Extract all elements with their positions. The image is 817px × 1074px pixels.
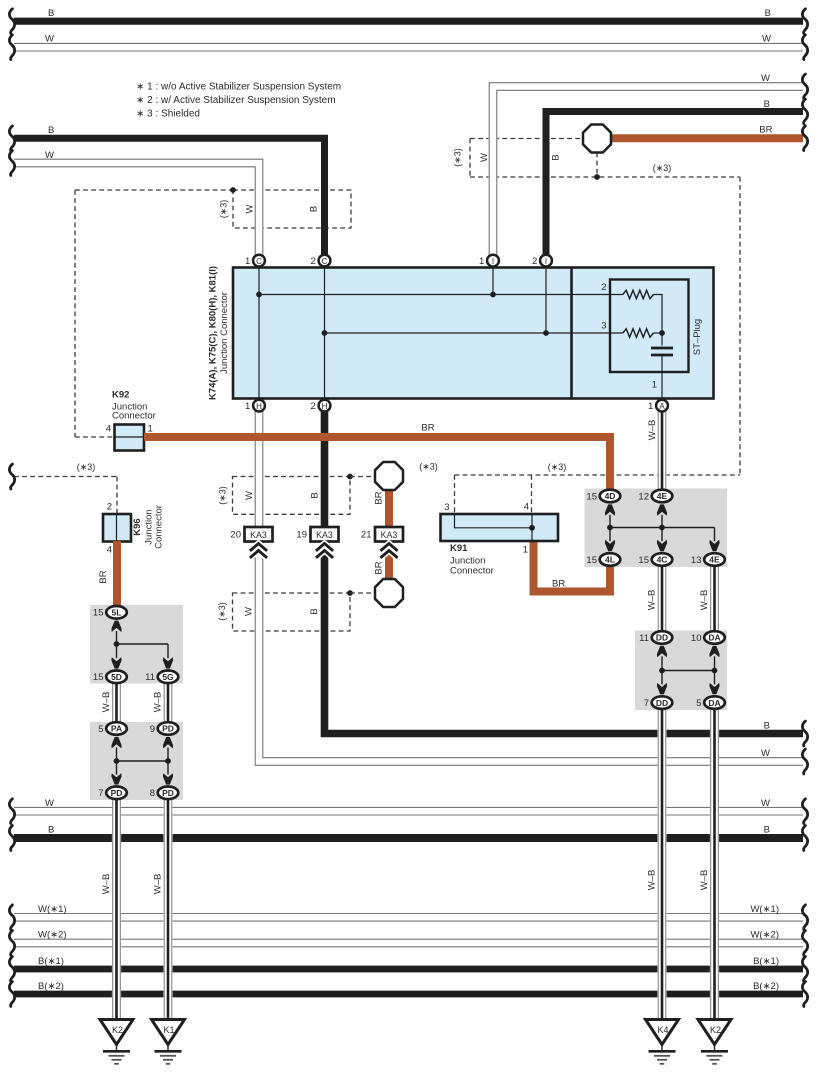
svg-text:12: 12: [638, 491, 649, 502]
svg-text:W(∗1): W(∗1): [38, 904, 67, 915]
svg-text:K92: K92: [112, 390, 129, 401]
svg-text:∗ 2 : w/ Active Stabilizer Sus: ∗ 2 : w/ Active Stabilizer Suspension Sy…: [136, 95, 336, 106]
connector 4D/4E/4L/4C with arrows: [605, 504, 615, 515]
svg-text:7: 7: [644, 698, 649, 709]
svg-text:15: 15: [586, 491, 597, 502]
shield octagon top right: [583, 125, 611, 153]
node K91 junction: [529, 525, 535, 531]
svg-text:5: 5: [696, 698, 701, 709]
shield dashed right vertical: [739, 177, 741, 475]
wire BR from K96 to 5L: [113, 541, 121, 606]
svg-text:B: B: [48, 8, 54, 19]
svg-text:1: 1: [245, 256, 250, 267]
svg-text:W–B: W–B: [153, 874, 164, 895]
wire BR KA3 21 to lower octagon: [385, 541, 393, 580]
svg-text:DA: DA: [708, 698, 720, 708]
svg-text:3: 3: [601, 321, 606, 332]
wire resistor 3 output: [653, 332, 662, 334]
shield dashed line left vertical: [74, 190, 76, 437]
connector KA3 pin 20: [245, 527, 273, 542]
svg-text:4E: 4E: [709, 555, 720, 565]
svg-text:W: W: [45, 798, 54, 809]
wire W to junction connector pin 1C: [14, 163, 259, 257]
pin 2C: [319, 255, 331, 267]
svg-text:W: W: [761, 798, 770, 809]
K91 internal wire pin 4 to pin 1: [531, 514, 533, 541]
block internal wire pin 2C to 2H: [324, 268, 326, 399]
svg-text:1: 1: [245, 401, 250, 412]
wire end marks right: [802, 9, 807, 34]
svg-text:K4: K4: [657, 1025, 668, 1035]
svg-text:PA: PA: [111, 724, 122, 734]
svg-text:15: 15: [586, 555, 597, 566]
wire B from pin 2H down and right: [325, 409, 804, 734]
wire W-B 4E to DA: [710, 565, 719, 632]
svg-text:4: 4: [107, 545, 112, 556]
svg-text:W: W: [45, 150, 54, 161]
svg-text:(∗3): (∗3): [419, 462, 438, 472]
svg-text:7: 7: [98, 788, 103, 799]
svg-text:1: 1: [652, 380, 657, 391]
svg-text:11: 11: [145, 672, 155, 683]
wire W from pin 1H down and right: [259, 409, 803, 762]
shield dashed drop to K91 pin 3: [454, 475, 456, 514]
connector 5L with arrows: [111, 621, 121, 632]
svg-text:15: 15: [93, 608, 104, 619]
svg-text:Connector: Connector: [112, 411, 156, 422]
node on wire 1: [256, 292, 262, 298]
svg-text:2: 2: [532, 256, 537, 267]
svg-text:B(∗2): B(∗2): [753, 981, 779, 992]
svg-text:2: 2: [311, 401, 316, 412]
svg-text:KA3: KA3: [316, 530, 333, 540]
svg-text:W–B: W–B: [647, 590, 658, 611]
ground K2 left: [100, 1020, 133, 1045]
svg-text:K74(A), K75(C), K80(H), K81(I): K74(A), K75(C), K80(H), K81(I): [208, 266, 219, 400]
svg-text:10: 10: [691, 633, 702, 644]
wire B bus middle: [14, 834, 803, 842]
svg-text:W(∗2): W(∗2): [750, 930, 779, 941]
wire BR shielded to octagon: [611, 134, 803, 142]
svg-text:8: 8: [150, 788, 155, 799]
svg-text:K1: K1: [163, 1025, 174, 1035]
junction connector K74(A), K75(C), K80(H), K81(I): [233, 268, 714, 399]
shield dashed line to K92: [75, 436, 114, 438]
node shield junction upper KA3 box: [347, 474, 353, 480]
svg-text:W: W: [244, 607, 255, 616]
svg-text:(∗3): (∗3): [453, 148, 463, 167]
ground K2 right: [698, 1020, 731, 1045]
wire W-B 5D to PA: [112, 682, 121, 723]
svg-text:(∗3): (∗3): [548, 462, 567, 472]
svg-text:W–B: W–B: [153, 692, 164, 713]
block internal wire pin 1C to 1H: [258, 268, 260, 399]
pin 1I: [487, 255, 499, 267]
svg-text:PD: PD: [162, 724, 174, 734]
svg-text:9: 9: [150, 724, 155, 735]
svg-text:W: W: [244, 491, 255, 500]
svg-text:(∗3): (∗3): [77, 462, 96, 472]
shield dashed line to K96: [14, 476, 117, 478]
block internal wire pin 1I: [492, 268, 494, 295]
svg-text:2: 2: [601, 282, 606, 293]
svg-text:B: B: [765, 8, 771, 19]
svg-text:B(∗2): B(∗2): [38, 981, 64, 992]
svg-text:Connector: Connector: [154, 505, 165, 549]
svg-text:KA3: KA3: [250, 530, 267, 540]
svg-text:4L: 4L: [605, 555, 615, 565]
svg-text:2: 2: [311, 256, 316, 267]
block internal wire to resistor 2: [259, 294, 623, 296]
svg-text:1: 1: [148, 424, 153, 435]
wire B(*1) bus: [14, 966, 803, 973]
svg-text:BR: BR: [421, 423, 434, 434]
shield octagon above KA3 21: [375, 462, 403, 490]
svg-text:I: I: [492, 257, 494, 266]
wire W-B DA to ground K2: [710, 708, 719, 1020]
shaded connector area PA/PD: [90, 722, 183, 800]
svg-text:5D: 5D: [111, 672, 122, 682]
svg-text:PD: PD: [111, 788, 123, 798]
svg-text:BR: BR: [98, 570, 109, 583]
node shield junction left: [230, 187, 236, 193]
shield dashed drop to K91 pin 4: [531, 475, 533, 514]
svg-text:H: H: [322, 402, 328, 411]
shield stub from octagon: [596, 153, 598, 178]
wire W-B PD to ground K1: [163, 798, 172, 1020]
svg-text:(∗3): (∗3): [217, 602, 227, 621]
block internal wire to resistor 3: [325, 332, 623, 334]
svg-text:4D: 4D: [605, 491, 616, 501]
wire W-B PD to ground K2: [112, 798, 121, 1020]
svg-text:BR: BR: [374, 561, 385, 574]
ST-Plug box: [610, 280, 689, 373]
node resistor junction: [659, 330, 665, 336]
ground K1: [152, 1020, 185, 1045]
resistor 3 of ST-Plug: [623, 329, 654, 337]
wire B bus top: [14, 18, 803, 25]
svg-text:C: C: [256, 257, 262, 266]
svg-text:B: B: [310, 492, 321, 498]
svg-text:W–B: W–B: [647, 870, 658, 891]
svg-text:C: C: [322, 257, 328, 266]
resistor 2 of ST-Plug: [623, 290, 654, 298]
node shield junction right: [594, 174, 600, 180]
wire B to junction connector pin 2I: [546, 112, 803, 263]
svg-text:4: 4: [106, 424, 111, 435]
svg-text:2: 2: [107, 502, 112, 513]
svg-text:BR: BR: [759, 125, 772, 136]
pin 2I: [540, 255, 552, 267]
block internal wire pin 2I: [545, 268, 547, 334]
svg-text:W: W: [45, 34, 54, 45]
svg-text:B: B: [764, 720, 770, 731]
wire W-B 5G to PD: [163, 682, 172, 723]
shaded connector area 4D/4E/4L/4C: [585, 489, 728, 568]
svg-text:B: B: [48, 825, 54, 836]
svg-text:W–B: W–B: [101, 692, 112, 713]
svg-text:1: 1: [648, 401, 653, 412]
wire BR from K91 pin 1 to 4L: [534, 540, 611, 592]
wire end marks left: [9, 9, 14, 34]
shield dashed box (*3) upper around KA3 wires: [233, 477, 351, 515]
pin 1C: [253, 255, 265, 267]
svg-text:4C: 4C: [657, 555, 668, 565]
svg-text:KA3: KA3: [381, 530, 398, 540]
pin 1A: [656, 400, 668, 412]
shield dashed line right top: [470, 138, 583, 140]
wire B to junction connector pin 2C: [14, 138, 325, 262]
shield octagon below KA3 21: [375, 579, 403, 607]
connector DD/DA with arrows: [657, 646, 667, 657]
svg-text:B: B: [309, 608, 320, 614]
wire W-B from pin 1A to 4E: [657, 409, 666, 491]
svg-text:20: 20: [230, 530, 241, 541]
svg-text:DA: DA: [708, 633, 720, 643]
wire W to junction connector pin 1I: [493, 87, 803, 258]
connector KA3 pin 21: [375, 527, 403, 542]
svg-text:Junction Connector: Junction Connector: [219, 292, 230, 374]
wire W(*1) bus: [14, 913, 803, 922]
svg-text:W–B: W–B: [647, 420, 658, 441]
shield dashed to octagon below KA3: [350, 592, 375, 594]
shield dashed to octagon above KA3: [350, 476, 375, 478]
svg-text:W–B: W–B: [699, 590, 710, 611]
svg-text:4E: 4E: [657, 491, 668, 501]
svg-text:B(∗1): B(∗1): [753, 956, 779, 967]
connector KA3 pin 19: [311, 527, 339, 542]
svg-text:PD: PD: [162, 788, 174, 798]
wire resistor 2 output: [653, 295, 662, 334]
svg-text:H: H: [256, 402, 262, 411]
svg-text:B: B: [309, 206, 320, 212]
svg-text:∗ 3 : Shielded: ∗ 3 : Shielded: [136, 109, 200, 120]
svg-text:(∗3): (∗3): [219, 200, 229, 219]
svg-text:W: W: [761, 73, 770, 84]
shield dashed line left top: [75, 189, 233, 191]
shield dashed drop to K96 pin 2: [116, 477, 118, 515]
svg-text:I: I: [545, 257, 547, 266]
svg-text:5L: 5L: [112, 608, 122, 618]
svg-text:1: 1: [523, 545, 528, 556]
svg-text:B: B: [48, 125, 54, 136]
shield dashed horizontal above K91: [455, 474, 741, 476]
svg-text:B: B: [764, 99, 770, 110]
shield dashed left edge right box: [469, 139, 471, 178]
node shield junction lower KA3 box: [347, 590, 353, 596]
wire B(*2) bus: [14, 991, 803, 998]
shaded connector area DD/DA: [635, 631, 727, 711]
svg-text:W(∗1): W(∗1): [750, 904, 779, 915]
svg-text:K91: K91: [450, 543, 468, 554]
svg-text:1: 1: [479, 256, 484, 267]
capacitor of ST-Plug: [661, 333, 663, 346]
svg-text:W: W: [761, 748, 770, 759]
svg-text:DD: DD: [656, 633, 668, 643]
svg-text:B: B: [551, 154, 562, 160]
svg-text:∗ 1 : w/o Active Stabilizer Su: ∗ 1 : w/o Active Stabilizer Suspension S…: [136, 82, 341, 93]
svg-text:K96: K96: [132, 518, 143, 535]
svg-text:K2: K2: [710, 1025, 721, 1035]
svg-text:5: 5: [98, 724, 103, 735]
connector PA/PD with arrows: [111, 737, 121, 748]
svg-text:ST–Plug: ST–Plug: [692, 319, 703, 355]
svg-text:B: B: [764, 825, 770, 836]
wire W-B 4C to DD: [657, 565, 666, 632]
svg-text:(∗3): (∗3): [218, 486, 228, 505]
node on wire 2: [322, 330, 328, 336]
ground K4: [646, 1020, 679, 1045]
wire BR from K92 to 4D: [144, 437, 610, 491]
junction connector K96: [103, 514, 131, 542]
svg-text:15: 15: [638, 555, 649, 566]
svg-text:W: W: [762, 34, 771, 45]
svg-text:W(∗2): W(∗2): [38, 930, 67, 941]
svg-text:11: 11: [639, 633, 649, 644]
svg-text:K2: K2: [112, 1025, 123, 1035]
wire W bus middle: [14, 807, 803, 816]
svg-text:A: A: [659, 402, 665, 411]
wire BR octagon to KA3 21: [385, 490, 393, 528]
svg-text:B(∗1): B(∗1): [38, 956, 64, 967]
svg-text:4: 4: [524, 502, 529, 513]
shaded connector area 5L/5D/5G: [90, 605, 183, 684]
svg-text:19: 19: [296, 530, 307, 541]
svg-text:DD: DD: [656, 698, 668, 708]
block divider: [570, 268, 573, 399]
svg-text:W: W: [245, 204, 256, 213]
svg-text:13: 13: [691, 555, 702, 566]
shield dashed long line (*3) right: [470, 176, 740, 178]
wire W-B DD to ground K4: [657, 708, 666, 1020]
svg-text:21: 21: [361, 530, 372, 541]
svg-text:15: 15: [93, 672, 104, 683]
junction connector K91: [441, 514, 559, 541]
svg-text:BR: BR: [374, 491, 385, 504]
junction connector K92: [115, 425, 145, 451]
svg-text:5G: 5G: [162, 672, 174, 682]
shield dashed box around W,B wires left: [233, 190, 351, 228]
svg-text:3: 3: [444, 502, 449, 513]
pin 1H: [253, 400, 265, 412]
wire W bus top: [14, 43, 803, 52]
svg-text:Connector: Connector: [450, 566, 494, 577]
svg-text:(∗3): (∗3): [653, 163, 672, 173]
svg-text:BR: BR: [552, 579, 565, 590]
shield dashed box (*3) lower around KA3 wires: [233, 593, 351, 631]
svg-text:W–B: W–B: [699, 870, 710, 891]
K91 internal wire pin 3: [455, 514, 533, 528]
svg-text:W–B: W–B: [101, 874, 112, 895]
pin 2H: [319, 400, 331, 412]
wire capacitor to pin 1A: [661, 355, 663, 402]
wire W(*2) bus: [14, 938, 803, 947]
